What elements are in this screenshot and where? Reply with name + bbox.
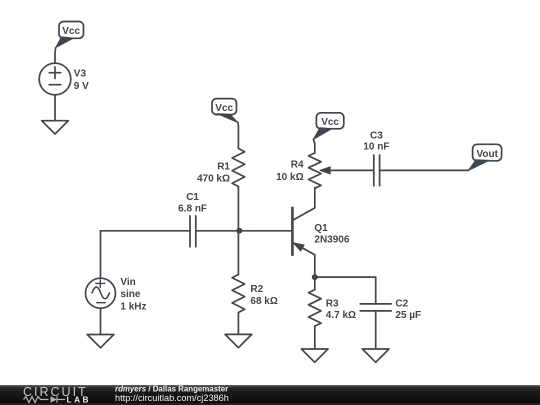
svg-text:Vout: Vout (476, 149, 498, 160)
svg-text:http://circuitlab.com/cj2386h: http://circuitlab.com/cj2386h (115, 393, 229, 403)
svg-text:6.8 nF: 6.8 nF (178, 203, 207, 214)
svg-text:4.7 kΩ: 4.7 kΩ (326, 310, 356, 321)
svg-text:Vcc: Vcc (62, 26, 80, 37)
resistor R2 (232, 275, 245, 313)
capacitor C3 (374, 155, 380, 186)
footer bar (0, 385, 540, 405)
node junction dot (emitter/R3/C2) (312, 274, 318, 280)
svg-text:C1: C1 (186, 192, 199, 203)
svg-text:Vin: Vin (120, 277, 135, 288)
svg-text:C2: C2 (395, 298, 408, 309)
ground (V3) (42, 121, 69, 134)
wire Vcc to R4 top (313, 139, 314, 153)
wire C2 to ground (375, 311, 377, 349)
wire V3 to ground (54, 95, 56, 121)
wire C3 to Vout (380, 169, 468, 171)
wire R4 wiper to C3 (330, 169, 374, 171)
svg-text:R2: R2 (250, 284, 263, 295)
wire Vin to ground (100, 308, 102, 334)
Vin plus sign (96, 280, 105, 288)
svg-text:R1: R1 (217, 162, 230, 173)
ground (R2) (225, 334, 252, 347)
voltage source V3 (39, 63, 71, 95)
node Vcc label (above R1) (212, 99, 238, 123)
wire emitter node to C2 branch (315, 277, 376, 304)
wire Vin to C1 (101, 230, 190, 232)
svg-text:R3: R3 (326, 298, 339, 309)
svg-text:470 kΩ: 470 kΩ (197, 173, 230, 184)
node Vout label (468, 144, 501, 170)
Q1 emitter arrow (PNP) (293, 243, 304, 251)
svg-text:1 kHz: 1 kHz (120, 301, 146, 312)
svg-text:9 V: 9 V (74, 81, 89, 92)
ground (Vin) (87, 335, 114, 348)
capacitor C1 (190, 216, 196, 247)
node Vcc label (top-left, at V3) (56, 22, 84, 48)
wire R4 bottom to Q1 collector (293, 188, 315, 221)
CircuitLab logo mini schematic (resistor + diode) (24, 396, 66, 403)
source Vin (sine) (86, 278, 116, 308)
Q1 emitter leg (293, 243, 315, 278)
transistor Q1 (PNP 2N3906) (291, 208, 294, 255)
wire Vcc to V3 top (54, 48, 57, 64)
Vin sine wave (92, 287, 109, 299)
node junction dot (C1/R1/R2/base) (236, 228, 242, 234)
svg-text:rdmyers / Dallas Rangemaster: rdmyers / Dallas Rangemaster (115, 384, 228, 393)
node Vcc label (above R4) (313, 113, 343, 140)
resistor R3 (309, 290, 322, 327)
svg-text:Q1: Q1 (314, 223, 328, 234)
svg-text:Vcc: Vcc (215, 103, 233, 114)
svg-text:10 kΩ: 10 kΩ (276, 172, 303, 183)
svg-text:R4: R4 (291, 160, 304, 171)
wire emitter node to R3 (314, 277, 316, 290)
wire R1 bottom to node (237, 187, 239, 231)
R4 wiper arrow (320, 167, 330, 174)
wire C1 to base node (197, 230, 292, 232)
svg-text:10 nF: 10 nF (363, 142, 389, 153)
capacitor C2 (360, 304, 391, 311)
wire R2 to ground (237, 313, 239, 335)
V3 minus sign (49, 84, 60, 86)
potentiometer R4 (309, 153, 322, 188)
ground (C2) (362, 349, 389, 362)
svg-text:2N3906: 2N3906 (314, 235, 349, 246)
svg-text:LAB: LAB (67, 394, 92, 404)
svg-text:Vcc: Vcc (321, 117, 339, 128)
wire Vcc to R1 top (237, 123, 240, 149)
svg-text:sine: sine (120, 289, 140, 300)
svg-text:68 kΩ: 68 kΩ (250, 296, 277, 307)
V3 plus sign (49, 67, 60, 78)
wire node down to R2 (237, 231, 239, 275)
svg-text:V3: V3 (74, 69, 87, 80)
svg-text:C3: C3 (370, 131, 383, 142)
wire node down to Vin source (100, 231, 102, 278)
ground (R3) (301, 349, 328, 362)
resistor R1 (232, 149, 245, 187)
Vin minus sign (97, 302, 106, 304)
svg-text:25 µF: 25 µF (395, 310, 421, 321)
wire R3 to ground (314, 326, 316, 349)
